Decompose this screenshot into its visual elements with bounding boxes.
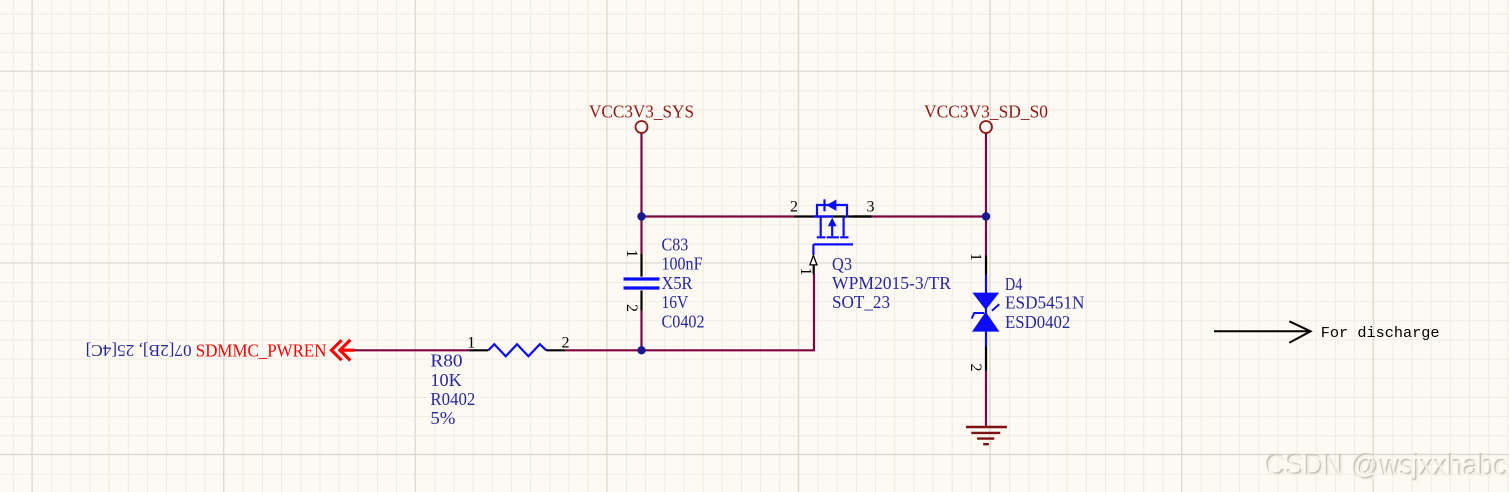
wire node A to C83 pin 1 xyxy=(640,217,642,255)
svg-text:R0402: R0402 xyxy=(430,389,475,409)
capacitor C83 pin 1 xyxy=(640,254,642,277)
transistor Q3 body diode arrow xyxy=(826,200,836,211)
svg-text:1: 1 xyxy=(623,250,640,258)
diode D4 pin 1 xyxy=(985,256,987,275)
capacitor C83 pin 2 xyxy=(640,291,642,311)
resistor R80 labels xyxy=(430,351,475,428)
svg-text:For discharge: For discharge xyxy=(1321,324,1440,342)
annotation arrow xyxy=(1214,321,1311,342)
resistor R80 pin 1 xyxy=(469,349,488,351)
svg-text:X5R: X5R xyxy=(662,273,693,293)
svg-text:16V: 16V xyxy=(662,292,689,312)
svg-text:1: 1 xyxy=(797,268,814,276)
svg-text:100nF: 100nF xyxy=(662,254,703,274)
svg-text:2: 2 xyxy=(562,334,570,351)
svg-text:VCC3V3_SD_S0: VCC3V3_SD_S0 xyxy=(924,102,1048,122)
transistor Q3 body xyxy=(813,199,853,255)
wire VCC3V3_SD_S0 to node xyxy=(985,134,987,217)
wire C83 pin 2 to node C xyxy=(640,311,642,351)
diode D4 labels xyxy=(1005,274,1085,332)
svg-text:R80: R80 xyxy=(430,351,462,371)
wire node A to Q3 pin 2 xyxy=(642,215,795,217)
svg-text:2: 2 xyxy=(790,198,798,215)
svg-text:ESD0402: ESD0402 xyxy=(1005,312,1070,332)
transistor Q3 pin 1 arrow xyxy=(810,255,817,265)
wire node B to D4 pin 1 xyxy=(985,217,987,256)
ground xyxy=(966,427,1007,444)
diode D4 pin 2 xyxy=(985,347,987,371)
junction node C xyxy=(637,346,645,354)
svg-text:ESD5451N: ESD5451N xyxy=(1005,293,1085,313)
svg-text:2: 2 xyxy=(623,304,640,312)
diode D4 bottom triangle xyxy=(972,312,999,332)
svg-text:C83: C83 xyxy=(662,235,689,255)
svg-text:3: 3 xyxy=(867,198,875,215)
wire Q3 pin 3 to node B xyxy=(871,215,986,217)
svg-text:C0402: C0402 xyxy=(662,312,705,332)
svg-text:SOT_23: SOT_23 xyxy=(832,292,890,312)
svg-text:07[2B], 25[4C]: 07[2B], 25[4C] xyxy=(86,341,192,360)
wire VCC3V3_SYS to node xyxy=(640,134,642,217)
resistor R80 zigzag xyxy=(488,344,546,356)
capacitor C83 plates xyxy=(624,279,660,288)
capacitor C83 value labels xyxy=(662,235,705,332)
svg-text:D4: D4 xyxy=(1005,274,1023,294)
resistor R80 pin 2 xyxy=(546,349,565,351)
svg-text:CSDN @wsjxxhabc: CSDN @wsjxxhabc xyxy=(1267,450,1509,483)
transistor Q3 pin 1 xyxy=(813,265,815,274)
wire D4 pin 2 to ground xyxy=(985,371,987,428)
transistor Q3 pin 3 xyxy=(853,215,872,217)
power symbol VCC3V3_SD_S0 circle xyxy=(980,121,992,133)
junction node A xyxy=(637,212,645,220)
svg-text:10K: 10K xyxy=(430,370,462,390)
svg-text:WPM2015-3/TR: WPM2015-3/TR xyxy=(832,273,951,293)
svg-text:2: 2 xyxy=(967,364,984,372)
transistor Q3 labels xyxy=(832,254,951,312)
diode D4 body line xyxy=(985,275,987,347)
wire R80 pin 2 to Q3 gate corner xyxy=(565,274,814,350)
svg-text:1: 1 xyxy=(967,253,984,261)
transistor Q3 pin 2 xyxy=(794,215,872,217)
svg-text:1: 1 xyxy=(467,334,475,351)
junction node B xyxy=(982,212,990,220)
wire SDMMC_PWREN port to R80 pin 1 xyxy=(354,349,469,351)
power symbol VCC3V3_SYS circle xyxy=(636,121,648,133)
svg-text:SDMMC_PWREN: SDMMC_PWREN xyxy=(196,340,327,360)
svg-text:VCC3V3_SYS: VCC3V3_SYS xyxy=(589,102,694,122)
diode D4 zener bars xyxy=(972,304,1000,318)
transistor Q3 substrate arrow xyxy=(828,218,837,227)
diode D4 top triangle xyxy=(972,293,999,310)
svg-text:5%: 5% xyxy=(430,408,455,428)
port chevron xyxy=(331,340,354,361)
svg-text:Q3: Q3 xyxy=(832,254,852,274)
